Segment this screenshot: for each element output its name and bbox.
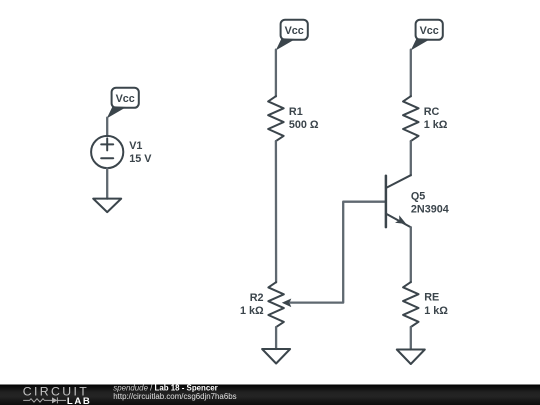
svg-text:R1: R1: [289, 106, 303, 118]
svg-text:RC: RC: [424, 106, 440, 118]
transistor Q5: [386, 175, 411, 227]
svg-text:LAB: LAB: [67, 396, 92, 405]
wire flag to V1: [106, 118, 108, 136]
label R2 1 kΩ: [240, 292, 264, 317]
svg-text:spendude / Lab 18 - Spencer: spendude / Lab 18 - Spencer: [113, 383, 217, 392]
potentiometer R2: [268, 282, 291, 327]
resistor R1: [268, 96, 284, 141]
svg-text:1 kΩ: 1 kΩ: [424, 119, 448, 131]
svg-text:500 Ω: 500 Ω: [289, 119, 319, 131]
wire R1 to R2: [275, 141, 278, 282]
wire flag to R1: [275, 50, 277, 96]
label RE 1 kΩ: [424, 292, 448, 317]
svg-text:Vcc: Vcc: [420, 25, 439, 37]
wire emitter to RE: [410, 227, 412, 282]
power flag Vcc (net at RC): [411, 20, 443, 51]
ground (R2): [262, 349, 290, 364]
wire RC to collector: [410, 141, 412, 175]
svg-text:http://circuitlab.com/csg6djn7: http://circuitlab.com/csg6djn7ha6bs: [113, 392, 236, 401]
wire V1 to ground: [106, 168, 108, 199]
wire R2 to ground: [275, 327, 277, 349]
svg-text:Vcc: Vcc: [285, 25, 304, 37]
ground (V1): [93, 199, 121, 213]
svg-text:1 kΩ: 1 kΩ: [240, 305, 264, 317]
footer bar: [0, 385, 540, 405]
wire flag to RC: [410, 50, 412, 96]
svg-text:Q5: Q5: [411, 191, 425, 203]
power flag Vcc (net at R1): [276, 20, 308, 51]
label Q5 2N3904: [411, 191, 449, 216]
power flag Vcc (net at V1): [107, 88, 139, 119]
resistor RC: [403, 96, 419, 141]
svg-text:2N3904: 2N3904: [411, 204, 449, 216]
svg-text:RE: RE: [424, 292, 439, 304]
voltage source V1: [91, 136, 123, 168]
svg-text:15 V: 15 V: [129, 153, 152, 165]
svg-text:R2: R2: [250, 292, 264, 304]
label V1 15 V: [129, 140, 152, 165]
label R1 500 Ω: [289, 106, 319, 131]
label RC 1 kΩ: [424, 106, 448, 131]
wire wiper to base: [290, 202, 385, 303]
ground (RE): [397, 350, 425, 365]
resistor RE: [403, 282, 419, 327]
svg-text:1 kΩ: 1 kΩ: [424, 305, 448, 317]
svg-text:Vcc: Vcc: [116, 93, 135, 105]
logo resistor-diode symbol: [23, 397, 66, 403]
svg-text:V1: V1: [129, 140, 142, 152]
wire RE to ground: [410, 327, 412, 350]
